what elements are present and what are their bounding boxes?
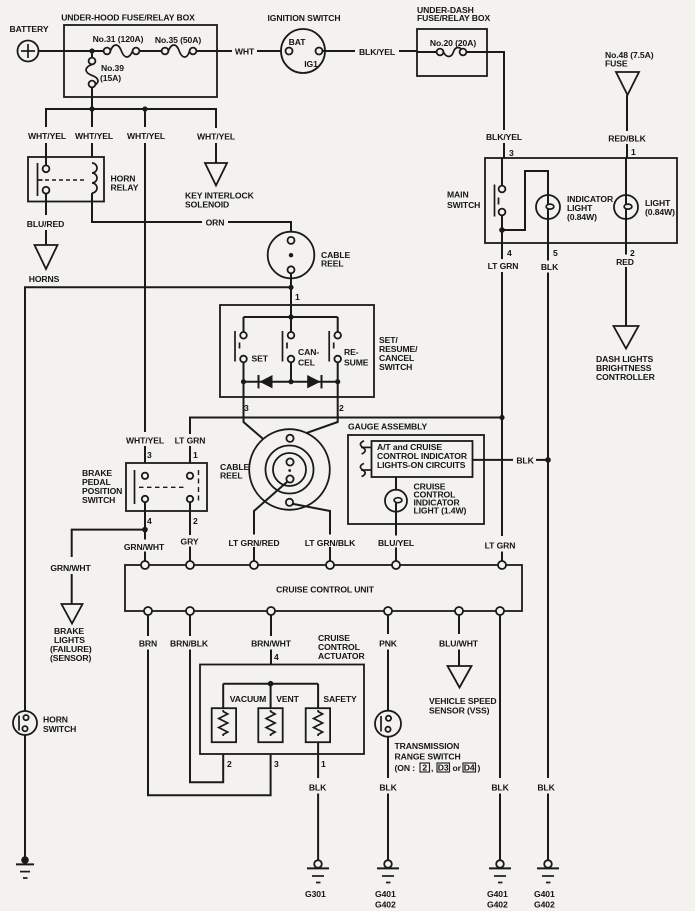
node bottom bus mid xyxy=(288,379,293,384)
svg-text:HORN: HORN xyxy=(43,715,68,725)
wire label WHT/YEL brake pedal xyxy=(126,436,164,446)
svg-text:BRN: BRN xyxy=(139,639,157,649)
node actuator junction xyxy=(268,681,274,687)
svg-text:WHT/YEL: WHT/YEL xyxy=(197,132,235,142)
wire LT GRN/RED cable reel to cruise unit xyxy=(254,482,287,562)
svg-text:PNK: PNK xyxy=(379,639,398,649)
svg-text:BLK: BLK xyxy=(516,456,534,466)
terminal top LT GRN xyxy=(498,561,506,569)
wire label BLU/RED xyxy=(27,219,65,229)
svg-text:4: 4 xyxy=(507,248,512,258)
svg-text:IG1: IG1 xyxy=(304,59,318,69)
wire horn feed to horn switch xyxy=(25,287,291,711)
wire BLU/YEL indicator to cruise unit xyxy=(395,524,397,561)
svg-text:TRANSMISSION: TRANSMISSION xyxy=(395,741,460,751)
svg-text:No.20 (20A): No.20 (20A) xyxy=(430,38,476,48)
svg-text:BRN/WHT: BRN/WHT xyxy=(251,639,292,649)
svg-text:G401: G401 xyxy=(375,889,396,899)
fuse No.39 xyxy=(86,54,98,88)
svg-text:WHT/YEL: WHT/YEL xyxy=(126,436,164,446)
svg-text:LT GRN: LT GRN xyxy=(488,261,519,271)
horn switch xyxy=(13,711,37,735)
terminal top GRY xyxy=(186,561,194,569)
fuse No.48 symbol xyxy=(616,72,639,95)
wire label BRN/WHT xyxy=(251,639,292,649)
svg-text:3: 3 xyxy=(147,450,152,460)
svg-text:REEL: REEL xyxy=(321,259,344,269)
svg-text:(SENSOR): (SENSOR) xyxy=(50,653,91,663)
wire GRN/WHT pin4 to cruise unit xyxy=(144,502,146,561)
wire pin1 into switch bus xyxy=(290,305,292,317)
node battery feed junction xyxy=(89,48,94,53)
cancel switch xyxy=(283,317,295,382)
terminal top GRN/WHT xyxy=(141,561,149,569)
svg-text:UNDER-HOOD FUSE/RELAY BOX: UNDER-HOOD FUSE/RELAY BOX xyxy=(61,13,195,23)
terminal top LT GRN/BLK xyxy=(326,561,334,569)
svg-text:G402: G402 xyxy=(487,900,508,910)
svg-text:CONTROLLER: CONTROLLER xyxy=(596,372,656,382)
svg-text:WHT/YEL: WHT/YEL xyxy=(75,131,113,141)
wire label LT GRN/RED xyxy=(229,538,280,548)
node bottom bus right xyxy=(335,379,340,384)
wire cable reel to set/resume switch pin 1 xyxy=(290,273,292,305)
svg-text:BLU/RED: BLU/RED xyxy=(27,219,65,229)
set/resume/cancel switch label xyxy=(379,335,418,372)
pin 3 label brake pedal switch xyxy=(147,450,152,460)
fuse No.20 (20A) label xyxy=(430,38,476,48)
vehicle speed sensor label xyxy=(429,696,496,716)
under-dash fuse/relay box label xyxy=(417,5,490,23)
gauge assembly box xyxy=(348,435,484,524)
svg-text:RANGE SWITCH: RANGE SWITCH xyxy=(395,752,461,762)
svg-text:3: 3 xyxy=(244,403,249,413)
svg-text:4: 4 xyxy=(147,516,152,526)
svg-text:No.39: No.39 xyxy=(101,63,124,73)
svg-text:LIGHT (1.4W): LIGHT (1.4W) xyxy=(414,506,467,516)
horn relay box xyxy=(28,157,104,202)
svg-text:(0.84W): (0.84W) xyxy=(567,212,597,222)
brake pedal position switch label xyxy=(82,468,122,505)
fuse No.39 (15A) label xyxy=(100,63,124,83)
terminal top BLU/YEL xyxy=(392,561,400,569)
wire label LT GRN lower xyxy=(485,541,516,551)
wire switch top bus xyxy=(244,316,338,318)
cruise control unit box xyxy=(125,565,522,611)
svg-text:GRN/WHT: GRN/WHT xyxy=(50,563,91,573)
set/resume/cancel switch box xyxy=(220,305,374,397)
vehicle speed sensor symbol xyxy=(448,666,472,688)
ignition switch xyxy=(281,29,325,73)
svg-text:BATTERY: BATTERY xyxy=(10,24,49,34)
wire battery to under-hood box xyxy=(39,50,65,52)
fuse No.35 (50A) label xyxy=(155,35,201,45)
svg-text:5: 5 xyxy=(553,248,558,258)
svg-text:FUSE: FUSE xyxy=(605,59,628,69)
fuse No.31 xyxy=(104,45,140,57)
wire WHT/YEL bus to brake pedal switch xyxy=(144,109,146,473)
wire label LT GRN brake pedal xyxy=(175,436,206,446)
wire main switch to indicator light xyxy=(502,171,548,230)
svg-text:LIGHTS-ON CIRCUITS: LIGHTS-ON CIRCUITS xyxy=(377,460,466,470)
horn switch label xyxy=(43,715,76,735)
svg-text:BLK: BLK xyxy=(309,783,327,793)
wire WHT/YEL bus to key interlock xyxy=(215,143,217,163)
horns symbol xyxy=(35,245,58,269)
svg-text:IGNITION SWITCH: IGNITION SWITCH xyxy=(268,13,341,23)
wire BRN/WHT to actuator xyxy=(270,615,272,684)
pin 3 label set/resume switch xyxy=(244,403,249,413)
svg-text:GRN/WHT: GRN/WHT xyxy=(124,542,165,552)
transmission range switch label xyxy=(395,741,461,762)
svg-text:BRN/BLK: BRN/BLK xyxy=(170,639,209,649)
wire lights-on box to indicator bulb xyxy=(395,477,397,498)
main switch label xyxy=(447,190,480,211)
key interlock solenoid symbol xyxy=(205,163,227,186)
svg-text:No.35 (50A): No.35 (50A) xyxy=(155,35,201,45)
wire RED/BLK fuse No.48 down xyxy=(626,95,628,196)
svg-text:(0.84W): (0.84W) xyxy=(645,207,675,217)
wire BLK/YEL ignition to under-dash box xyxy=(323,50,418,52)
svg-text:G402: G402 xyxy=(534,900,555,910)
svg-text:SENSOR (VSS): SENSOR (VSS) xyxy=(429,706,490,716)
svg-text:REEL: REEL xyxy=(220,471,243,481)
wire label WHT/YEL 1 xyxy=(28,131,66,141)
main switch contacts xyxy=(495,158,506,243)
node main switch junction xyxy=(499,227,505,233)
svg-text:BLK/YEL: BLK/YEL xyxy=(359,47,395,57)
battery label xyxy=(10,24,49,34)
wire LT GRN/BLK cable reel to cruise unit xyxy=(293,504,330,561)
dash lights brightness controller symbol xyxy=(614,326,639,349)
svg-text:G301: G301 xyxy=(305,889,326,899)
svg-text:SAFETY: SAFETY xyxy=(323,694,357,704)
wire label BLK/YEL vertical xyxy=(486,132,522,142)
pin 1 label light xyxy=(631,147,636,157)
pin 4 label actuator xyxy=(274,652,279,662)
vent label xyxy=(276,694,299,704)
light bulb xyxy=(614,195,638,243)
wire actuator distribution xyxy=(223,684,318,709)
cancel label xyxy=(298,347,319,368)
node GRN/WHT branch junction xyxy=(142,527,148,533)
resume switch xyxy=(329,317,341,382)
svg-text:SET: SET xyxy=(252,354,269,364)
ground horn switch xyxy=(16,856,34,878)
ground G401/G402 far right xyxy=(534,860,559,909)
node junction horn feed xyxy=(288,285,293,290)
wire BLK lights-on circuits to main switch BLK line xyxy=(473,459,549,461)
a/t and cruise control indicator lights-on circuits box U1 xyxy=(372,441,473,477)
terminal bottom BLU/WHT xyxy=(455,607,463,615)
svg-text:BLK/YEL: BLK/YEL xyxy=(486,132,522,142)
pin 1 label set/resume switch xyxy=(295,292,300,302)
wire BLK/YEL to main switch pin 3 xyxy=(487,52,504,158)
cruise control actuator box xyxy=(200,665,364,755)
svg-text:3: 3 xyxy=(509,148,514,158)
under-dash fuse/relay box xyxy=(417,29,487,76)
node LT GRN junction xyxy=(499,415,504,420)
node bus junction at coil xyxy=(89,106,94,111)
dash lights brightness controller label xyxy=(596,354,656,382)
svg-text:2: 2 xyxy=(422,763,427,773)
pin 1 label brake pedal switch xyxy=(193,450,198,460)
svg-text:BLU/YEL: BLU/YEL xyxy=(378,538,414,548)
wire WHT/YEL distribution bus xyxy=(46,109,216,128)
wire horn switch to ground xyxy=(24,735,26,858)
svg-text:BLK: BLK xyxy=(379,783,397,793)
indicator light label xyxy=(567,194,614,222)
vent solenoid L2 xyxy=(258,708,282,742)
wire label PNK xyxy=(379,639,398,649)
svg-text:VEHICLE SPEED: VEHICLE SPEED xyxy=(429,696,496,706)
cable reel upper xyxy=(268,232,315,279)
wire label BLK cruise unit xyxy=(491,783,509,793)
svg-text:1: 1 xyxy=(295,292,300,302)
svg-text:HORNS: HORNS xyxy=(29,274,60,284)
ground G401/G402 mid xyxy=(487,860,511,909)
terminal bottom BRN xyxy=(144,607,152,615)
svg-text:FUSE/RELAY BOX: FUSE/RELAY BOX xyxy=(417,13,490,23)
cable reel lower label xyxy=(220,462,249,481)
wire label WHT xyxy=(235,47,255,57)
wire between fuses xyxy=(139,50,161,52)
svg-text:RED: RED xyxy=(616,257,634,267)
svg-text:4: 4 xyxy=(274,652,279,662)
wire ORN relay coil to cable reel xyxy=(92,202,291,237)
pin 4 label brake pedal switch xyxy=(147,516,152,526)
safety solenoid L3 xyxy=(306,708,330,742)
svg-text:2: 2 xyxy=(193,516,198,526)
brake lights failure sensor label xyxy=(50,626,92,663)
wire PNK to transmission range switch xyxy=(387,615,389,711)
ground G301 xyxy=(305,860,329,899)
svg-text:BLU/WHT: BLU/WHT xyxy=(439,639,479,649)
wire BLU/RED relay to horns xyxy=(45,202,47,246)
wire label BLU/WHT xyxy=(439,639,479,649)
under-hood fuse/relay box xyxy=(64,25,217,97)
fuse No.31 (120A) label xyxy=(93,34,144,44)
vacuum solenoid L1 xyxy=(212,708,236,742)
svg-text:SWITCH: SWITCH xyxy=(379,362,412,372)
vacuum label xyxy=(230,694,266,704)
diode D2 pointing right xyxy=(307,375,321,388)
cruise control actuator label xyxy=(318,633,366,661)
key interlock solenoid label xyxy=(185,191,255,210)
horn relay dashed link xyxy=(45,179,87,181)
battery xyxy=(18,41,39,62)
svg-text:CEL: CEL xyxy=(298,358,315,368)
wire BLU/WHT to vss xyxy=(458,615,460,666)
node bottom bus left xyxy=(241,379,246,384)
svg-text:GAUGE ASSEMBLY: GAUGE ASSEMBLY xyxy=(348,422,428,432)
svg-text:RE-: RE- xyxy=(344,347,359,357)
wire label GRY xyxy=(180,537,198,547)
wire label WHT/YEL 3 xyxy=(127,131,165,141)
wire BLK safety solenoid to ground xyxy=(317,742,319,860)
svg-text:WHT/YEL: WHT/YEL xyxy=(28,131,66,141)
pin 1 label actuator xyxy=(321,759,326,769)
transmission range switch gear note xyxy=(395,763,481,774)
wire label BLK safety xyxy=(309,783,327,793)
wire label BLK/YEL xyxy=(359,47,395,57)
svg-text:CRUISE CONTROL UNIT: CRUISE CONTROL UNIT xyxy=(276,585,375,595)
wire No.39 to bus xyxy=(91,87,93,110)
cruise control indicator light bulb xyxy=(385,490,407,524)
svg-text:BLK: BLK xyxy=(491,783,509,793)
wire label WHT/YEL 4 xyxy=(197,132,235,142)
terminal top LT GRN/RED xyxy=(250,561,258,569)
wire label GRN/WHT xyxy=(124,542,165,552)
wire label RED/BLK xyxy=(608,134,646,144)
wire BLK main switch to ground xyxy=(547,243,549,860)
svg-text:RED/BLK: RED/BLK xyxy=(608,134,646,144)
main switch box xyxy=(485,158,677,243)
cable reel upper label xyxy=(321,250,350,269)
wire label LT GRN main switch xyxy=(488,261,519,271)
brake lights failure sensor symbol xyxy=(62,604,83,624)
svg-text:ACTUATOR: ACTUATOR xyxy=(318,651,366,661)
svg-text:,: , xyxy=(431,763,433,773)
wire label LT GRN/BLK xyxy=(305,538,356,548)
resume label xyxy=(344,347,369,368)
horns label xyxy=(29,274,60,284)
svg-text:LT GRN: LT GRN xyxy=(175,436,206,446)
wire LT GRN main switch to cruise unit xyxy=(501,243,503,561)
wire BLK range switch to ground xyxy=(387,737,389,860)
connector hook upper xyxy=(360,441,371,454)
svg-text:2: 2 xyxy=(227,759,232,769)
under-hood fuse/relay box label xyxy=(61,13,195,23)
ignition switch label xyxy=(268,13,341,23)
diode D1 pointing left xyxy=(259,375,273,388)
pin 2 label brake pedal switch xyxy=(193,516,198,526)
cruise control indicator light label xyxy=(414,482,467,516)
brake pedal position switch box xyxy=(126,463,207,511)
pin 2 label set/resume switch xyxy=(339,403,344,413)
wire label BRN/BLK xyxy=(170,639,209,649)
terminal bottom BRN/BLK xyxy=(186,607,194,615)
svg-text:MAIN: MAIN xyxy=(447,190,469,200)
terminal bottom BRN/WHT xyxy=(267,607,275,615)
svg-text:RELAY: RELAY xyxy=(111,183,139,193)
pin 2 label main switch xyxy=(630,248,635,258)
wire bus to relay contact xyxy=(45,143,47,157)
wire label BRN xyxy=(139,639,157,649)
node BLK junction xyxy=(545,457,551,463)
wire label BLK lower right xyxy=(537,783,555,793)
wire label RED xyxy=(616,257,634,267)
wire label GRN/WHT branch xyxy=(50,563,91,573)
wire pin 3 to cable reel xyxy=(244,382,287,460)
gauge assembly label xyxy=(348,422,428,432)
wire label BLK pnk column xyxy=(379,783,397,793)
wire bus to relay coil xyxy=(91,109,93,157)
horn relay coil xyxy=(92,163,97,202)
indicator light bulb xyxy=(536,195,560,243)
svg-text:or: or xyxy=(453,763,462,773)
svg-text:SWITCH: SWITCH xyxy=(447,200,480,210)
terminal bottom PNK xyxy=(384,607,392,615)
svg-text:LT GRN: LT GRN xyxy=(485,541,516,551)
svg-text:G401: G401 xyxy=(487,889,508,899)
wire label ORN xyxy=(206,218,225,228)
svg-text:No.31 (120A): No.31 (120A) xyxy=(93,34,144,44)
svg-text:1: 1 xyxy=(631,147,636,157)
svg-text:ORN: ORN xyxy=(206,218,225,228)
svg-text:BAT: BAT xyxy=(289,37,307,47)
ground G401/G402 left xyxy=(375,860,399,909)
svg-text:BLK: BLK xyxy=(541,262,559,272)
wire switch bottom bus xyxy=(244,381,338,383)
svg-text:LT GRN/BLK: LT GRN/BLK xyxy=(305,538,356,548)
svg-text:LT GRN/RED: LT GRN/RED xyxy=(229,538,280,548)
wire label BLU/YEL xyxy=(378,538,414,548)
svg-text:WHT: WHT xyxy=(235,47,255,57)
svg-text:(ON :: (ON : xyxy=(395,763,416,773)
wire label WHT/YEL 2 xyxy=(75,131,113,141)
wire GRN/WHT branch to brake lights sensor xyxy=(72,530,145,604)
wire RED to brightness controller xyxy=(625,243,627,326)
svg-text:): ) xyxy=(478,763,481,773)
safety label xyxy=(323,694,357,704)
cable reel lower xyxy=(249,429,330,510)
set label xyxy=(252,354,269,364)
node bus junction at brake wire xyxy=(142,106,147,111)
connector hook lower xyxy=(360,463,371,476)
svg-text:1: 1 xyxy=(321,759,326,769)
fuse No.20 xyxy=(417,48,487,57)
wire GRY pin2 to cruise unit xyxy=(189,502,191,561)
svg-text:D3: D3 xyxy=(438,763,449,773)
wire pin 2 to cable reel xyxy=(294,382,338,438)
wire BRN/BLK to vacuum solenoid xyxy=(190,615,223,782)
wire WHT fuse box to ignition switch xyxy=(196,50,285,52)
light label xyxy=(645,198,675,217)
transmission range switch xyxy=(375,711,401,737)
svg-text:SWITCH: SWITCH xyxy=(82,495,115,505)
wire label BLK main switch xyxy=(541,262,559,272)
pin 2 label actuator xyxy=(227,759,232,769)
brake pedal switch contacts xyxy=(135,470,199,504)
wire LT GRN brake pedal pin1 to main switch column xyxy=(190,418,502,473)
terminal bottom BLK xyxy=(496,607,504,615)
svg-text:VENT: VENT xyxy=(276,694,299,704)
svg-text:SOLENOID: SOLENOID xyxy=(185,200,229,210)
node switch bus junction xyxy=(288,314,293,319)
pin 4 label main switch xyxy=(507,248,512,258)
svg-text:D4: D4 xyxy=(464,763,475,773)
svg-text:G402: G402 xyxy=(375,900,396,910)
wire BLK cruise unit to ground xyxy=(499,615,501,860)
svg-text:CAN-: CAN- xyxy=(298,347,319,357)
svg-text:GRY: GRY xyxy=(180,537,198,547)
pin 3 label actuator xyxy=(274,759,279,769)
svg-text:1: 1 xyxy=(193,450,198,460)
svg-text:VACUUM: VACUUM xyxy=(230,694,266,704)
svg-text:(15A): (15A) xyxy=(100,73,121,83)
wire label BLK xyxy=(516,456,534,466)
svg-text:WHT/YEL: WHT/YEL xyxy=(127,131,165,141)
wire RED/BLK into light xyxy=(625,158,627,196)
set switch xyxy=(235,317,247,382)
horn relay label xyxy=(111,174,139,193)
svg-text:2: 2 xyxy=(339,403,344,413)
svg-text:SWITCH: SWITCH xyxy=(43,724,76,734)
pin 3 label main switch xyxy=(509,148,514,158)
horn relay contacts xyxy=(38,157,50,202)
pin 5 label main switch xyxy=(553,248,558,258)
fuse No.48 (7.5A) label xyxy=(605,50,654,69)
